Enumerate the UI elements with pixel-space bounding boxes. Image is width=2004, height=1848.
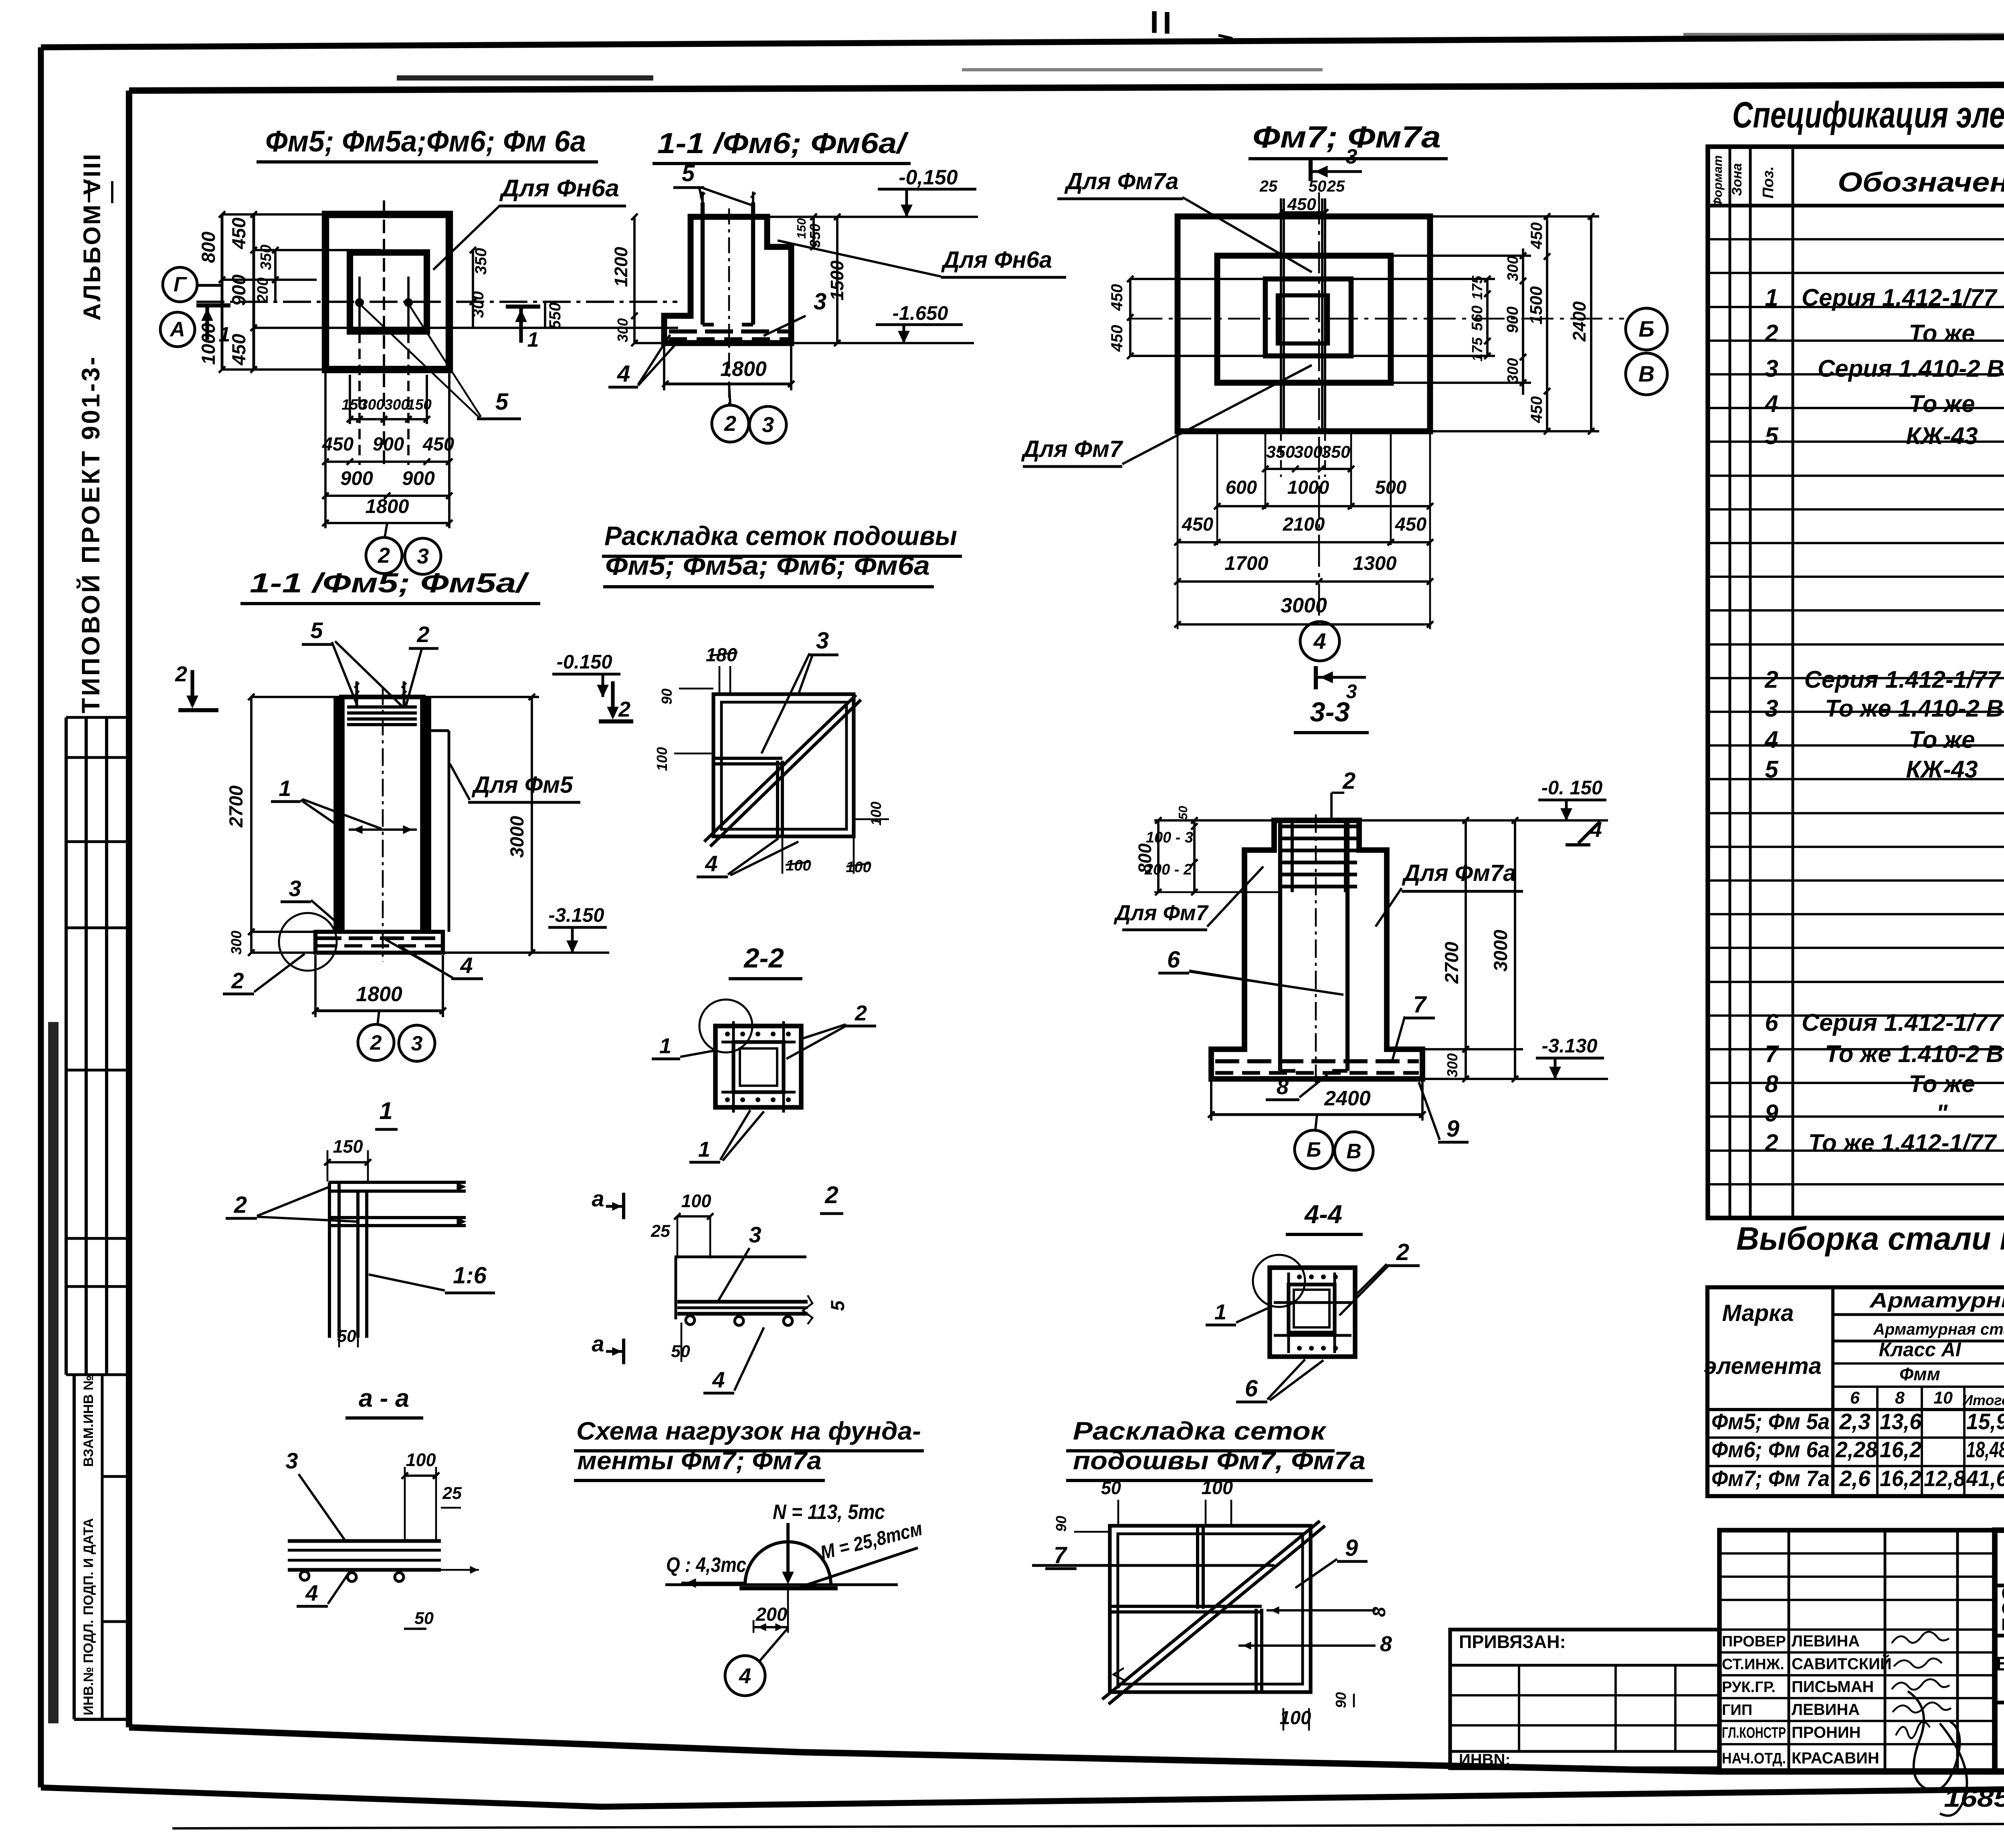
svg-text:2: 2 <box>175 662 187 686</box>
svg-text:25: 25 <box>1327 178 1345 195</box>
svg-text:100: 100 <box>1280 1707 1311 1728</box>
svg-text:ИНВN:: ИНВN: <box>1459 1751 1511 1769</box>
svg-text:ЛЕВИНА: ЛЕВИНА <box>1792 1701 1860 1719</box>
svg-text:Фм5; Фм 5а: Фм5; Фм 5а <box>1711 1409 1830 1434</box>
svg-text:2: 2 <box>370 1031 382 1054</box>
svg-text:То же: То же <box>1909 726 1975 753</box>
svg-text:Фмм: Фмм <box>1899 1364 1940 1384</box>
svg-text:100: 100 <box>654 747 670 771</box>
svg-text:300: 300 <box>1505 358 1521 383</box>
svg-text:Б: Б <box>1307 1138 1321 1161</box>
svg-text:Для Фм5: Для Фм5 <box>471 772 573 798</box>
svg-text:ПРИВЯЗАН:: ПРИВЯЗАН: <box>1459 1632 1566 1652</box>
svg-text:300: 300 <box>384 396 409 413</box>
svg-text:1:6: 1:6 <box>453 1262 487 1289</box>
svg-text:13,6: 13,6 <box>1880 1409 1922 1434</box>
svg-text:450: 450 <box>1182 513 1213 535</box>
svg-text:5: 5 <box>827 1300 848 1311</box>
svg-text:1500: 1500 <box>827 261 847 301</box>
svg-text:В: В <box>1346 1140 1362 1163</box>
svg-text:Обозначение: Обозначение <box>1838 167 2004 198</box>
svg-text:550: 550 <box>546 303 564 329</box>
svg-text:300: 300 <box>1444 1053 1461 1077</box>
svg-text:Серия 1.412-1/77 Вып.3: Серия 1.412-1/77 Вып.3 <box>1804 666 2004 693</box>
svg-text:5: 5 <box>310 618 323 643</box>
svg-text:Q : 4,3тс: Q : 4,3тс <box>666 1553 746 1577</box>
svg-text:Спецификация элементов монолит: Спецификация элементов монолитной констр… <box>1732 95 2004 135</box>
svg-text:": " <box>1936 1100 1948 1127</box>
svg-text:1800: 1800 <box>356 983 402 1006</box>
svg-text:Для Фм7а: Для Фм7а <box>1402 860 1516 886</box>
svg-text:Серия 1.412-1/77 Вып. 3: Серия 1.412-1/77 Вып. 3 <box>1802 284 2004 311</box>
svg-text:300: 300 <box>228 931 244 955</box>
svg-text:7: 7 <box>1413 992 1427 1018</box>
svg-text:2-2: 2-2 <box>743 943 784 973</box>
svg-text:3-3: 3-3 <box>1310 697 1350 727</box>
svg-text:100: 100 <box>1202 1477 1233 1498</box>
svg-text:Для Фн6а: Для Фн6а <box>941 247 1052 273</box>
svg-text:2: 2 <box>1764 1129 1778 1156</box>
svg-text:ПРОИЗВОДИТЕЛЬНОСТЬЮ 20ТЫС.М³/С: ПРОИЗВОДИТЕЛЬНОСТЬЮ 20ТЫС.М³/СУТ С КОНТА… <box>2002 1615 2004 1633</box>
svg-text:4: 4 <box>739 1664 751 1688</box>
svg-text:Итого: Итого <box>1962 1392 2004 1408</box>
svg-text:450: 450 <box>1108 284 1126 311</box>
svg-text:300: 300 <box>1505 256 1521 281</box>
svg-text:90: 90 <box>659 689 675 705</box>
svg-text:менты Фм7; Фм7а: менты Фм7; Фм7а <box>577 1447 822 1475</box>
svg-text:А: А <box>169 318 185 341</box>
svg-text:100: 100 <box>406 1450 436 1470</box>
svg-text:2: 2 <box>416 622 429 647</box>
svg-text:2: 2 <box>378 543 390 568</box>
svg-text:3: 3 <box>1765 695 1778 722</box>
svg-text:Арматурные изделия: Арматурные изделия <box>1869 1289 2004 1312</box>
svg-text:ИНВ.№ ПОДЛ.: ИНВ.№ ПОДЛ. <box>81 1620 96 1715</box>
svg-text:5: 5 <box>495 389 509 415</box>
svg-text:900: 900 <box>340 468 373 489</box>
svg-text:1: 1 <box>698 1137 710 1161</box>
svg-text:150: 150 <box>407 396 432 413</box>
svg-text:3: 3 <box>1346 145 1358 168</box>
svg-text:1: 1 <box>219 323 230 346</box>
svg-text:ГИП: ГИП <box>1722 1702 1752 1719</box>
svg-text:4: 4 <box>460 953 473 978</box>
svg-text:ЛЕВИНА: ЛЕВИНА <box>1792 1632 1860 1650</box>
svg-text:ТИПОВОЙ ПРОЕКТ 901-3-: ТИПОВОЙ ПРОЕКТ 901-3- <box>77 355 105 713</box>
svg-text:350: 350 <box>1266 442 1295 462</box>
svg-text:а: а <box>592 1186 604 1211</box>
svg-text:1300: 1300 <box>1353 553 1396 574</box>
svg-text:-0.150: -0.150 <box>557 651 612 673</box>
svg-text:ПРОНИН: ПРОНИН <box>1792 1724 1861 1741</box>
svg-text:450: 450 <box>1108 325 1126 352</box>
svg-text:БЛОК КОНТАКТНОЙ КАМЕРЫ: БЛОК КОНТАКТНОЙ КАМЕРЫ <box>1996 1653 2004 1675</box>
svg-text:То же: То же <box>1909 1070 1975 1097</box>
svg-text:ПИСЬМАН: ПИСЬМАН <box>1792 1678 1874 1696</box>
svg-text:560: 560 <box>1469 305 1486 331</box>
svg-text:5: 5 <box>1765 756 1779 783</box>
svg-text:450: 450 <box>1528 396 1545 424</box>
svg-text:2700: 2700 <box>225 786 246 828</box>
svg-text:НАЧ.ОТД.: НАЧ.ОТД. <box>1722 1750 1786 1767</box>
svg-text:8: 8 <box>1369 1607 1389 1617</box>
svg-text:1-1 /Фм5; Фм5а/: 1-1 /Фм5; Фм5а/ <box>250 568 530 598</box>
svg-text:4: 4 <box>712 1367 725 1392</box>
svg-text:1: 1 <box>379 1097 392 1124</box>
svg-text:4: 4 <box>1764 726 1778 753</box>
svg-text:элемента: элемента <box>1704 1353 1822 1379</box>
svg-text:Арматурная сталь ГОСТ 5781-75: Арматурная сталь ГОСТ 5781-75 <box>1873 1321 2004 1338</box>
svg-text:2: 2 <box>1342 768 1356 794</box>
svg-text:800: 800 <box>198 232 219 263</box>
svg-text:450: 450 <box>1287 195 1316 214</box>
svg-text:2700: 2700 <box>1441 942 1462 984</box>
svg-text:100: 100 <box>681 1191 711 1211</box>
svg-text:Зона: Зона <box>1729 163 1745 196</box>
svg-text:АЛЬБОМ VIII: АЛЬБОМ VIII <box>79 152 105 321</box>
svg-text:а - а: а - а <box>359 1384 409 1412</box>
svg-text:450: 450 <box>228 334 249 366</box>
svg-text:4-4: 4-4 <box>1304 1200 1342 1229</box>
svg-text:Для Фн6а: Для Фн6а <box>499 175 619 202</box>
svg-text:16856-01 2.2.: 16856-01 2.2. <box>1944 1784 2004 1812</box>
svg-text:2: 2 <box>1396 1239 1409 1265</box>
svg-text:Для Фм7: Для Фм7 <box>1021 436 1123 462</box>
svg-text:3: 3 <box>816 628 829 654</box>
svg-text:300: 300 <box>360 396 384 413</box>
svg-text:3: 3 <box>285 1448 298 1473</box>
svg-text:450: 450 <box>422 433 454 454</box>
svg-text:То же 1.412-1/77 Вып.3: То же 1.412-1/77 Вып.3 <box>1808 1129 2004 1156</box>
svg-text:300: 300 <box>469 291 487 318</box>
svg-text:8: 8 <box>1380 1632 1392 1656</box>
svg-text:1800: 1800 <box>720 357 767 381</box>
svg-text:-3.130: -3.130 <box>1542 1035 1598 1057</box>
svg-text:Серия 1.410-2 Вып. 1: Серия 1.410-2 Вып. 1 <box>1818 355 2004 382</box>
svg-text:150: 150 <box>794 218 808 239</box>
svg-text:1: 1 <box>1765 284 1778 311</box>
svg-text:6: 6 <box>1167 947 1180 973</box>
svg-text:450: 450 <box>1528 222 1545 250</box>
svg-text:200: 200 <box>756 1604 787 1625</box>
svg-text:12,8: 12,8 <box>1924 1466 1966 1491</box>
svg-text:Класс АI: Класс АI <box>1879 1339 1962 1361</box>
svg-text:25: 25 <box>1259 178 1278 195</box>
svg-text:2: 2 <box>1764 666 1778 693</box>
svg-text:3000: 3000 <box>1490 930 1511 972</box>
svg-text:10: 10 <box>1933 1388 1953 1408</box>
svg-text:350: 350 <box>1321 442 1350 462</box>
svg-text:2: 2 <box>618 697 630 721</box>
svg-text:90: 90 <box>1053 1516 1069 1532</box>
svg-text:1000: 1000 <box>1287 477 1329 498</box>
svg-text:-3.150: -3.150 <box>549 905 604 926</box>
svg-text:9: 9 <box>1765 1100 1778 1127</box>
svg-text:ПРОВЕР: ПРОВЕР <box>1722 1633 1786 1650</box>
svg-text:4: 4 <box>705 851 717 876</box>
svg-text:-1.650: -1.650 <box>893 303 948 324</box>
svg-text:2: 2 <box>231 968 244 993</box>
svg-text:350: 350 <box>258 244 275 270</box>
svg-text:3000: 3000 <box>506 816 527 858</box>
svg-text:2: 2 <box>234 1192 247 1218</box>
svg-text:1700: 1700 <box>1224 553 1268 574</box>
svg-text:Раскладка сеток подошвы: Раскладка сеток подошвы <box>604 521 957 551</box>
svg-text:То же 1.410-2 Вып.1: То же 1.410-2 Вып.1 <box>1825 695 2004 722</box>
svg-text:25: 25 <box>442 1484 462 1503</box>
svg-text:СТ.ИНЖ.: СТ.ИНЖ. <box>1722 1656 1784 1673</box>
svg-text:3: 3 <box>1765 355 1778 382</box>
svg-text:КЖ-43: КЖ-43 <box>1906 756 1978 783</box>
svg-text:7: 7 <box>1765 1040 1779 1067</box>
svg-text:9: 9 <box>1345 1535 1358 1561</box>
svg-text:450: 450 <box>322 433 354 454</box>
svg-text:300: 300 <box>614 318 631 342</box>
svg-text:Серия 1.412-1/77 Вып.3: Серия 1.412-1/77 Вып.3 <box>1802 1009 2004 1036</box>
svg-text:КРАСАВИН: КРАСАВИН <box>1792 1749 1879 1767</box>
svg-text:450: 450 <box>1395 513 1426 535</box>
svg-text:-0,150: -0,150 <box>899 166 958 189</box>
svg-text:2,3: 2,3 <box>1839 1409 1871 1434</box>
svg-text:1: 1 <box>527 328 539 351</box>
svg-text:2100: 2100 <box>1283 513 1325 535</box>
svg-text:Схема нагрузок на фунда-: Схема нагрузок на фунда- <box>576 1417 921 1445</box>
svg-text:КЖ-43: КЖ-43 <box>1906 422 1978 449</box>
svg-text:4: 4 <box>617 361 630 387</box>
svg-text:3: 3 <box>762 413 774 437</box>
svg-text:16,2: 16,2 <box>1880 1437 1921 1462</box>
svg-text:350: 350 <box>807 224 823 248</box>
svg-text:Раскладка сеток: Раскладка сеток <box>1073 1417 1327 1445</box>
svg-text:16,2: 16,2 <box>1880 1466 1921 1491</box>
svg-text:2,28: 2,28 <box>1835 1437 1878 1462</box>
svg-text:Г: Г <box>174 273 187 296</box>
svg-text:-0. 150: -0. 150 <box>1541 777 1603 799</box>
svg-text:4: 4 <box>305 1580 318 1606</box>
svg-text:6: 6 <box>1765 1009 1778 1036</box>
svg-text:1-1 /Фм6; Фм6а/: 1-1 /Фм6; Фм6а/ <box>657 127 909 160</box>
svg-text:2: 2 <box>1764 320 1778 347</box>
svg-text:18,48: 18,48 <box>1966 1437 2004 1462</box>
svg-text:2400: 2400 <box>1569 301 1590 342</box>
svg-text:Для Фм7: Для Фм7 <box>1113 901 1209 925</box>
svg-text:N = 113, 5тс: N = 113, 5тс <box>773 1501 885 1524</box>
svg-text:4: 4 <box>1313 628 1326 654</box>
svg-text:подошвы Фм7, Фм7а: подошвы Фм7, Фм7а <box>1073 1447 1366 1475</box>
svg-text:1200: 1200 <box>611 247 631 287</box>
svg-text:100: 100 <box>868 802 884 826</box>
svg-text:8: 8 <box>1277 1075 1289 1099</box>
svg-text:а: а <box>592 1331 604 1356</box>
svg-text:100: 100 <box>846 859 871 876</box>
svg-text:100: 100 <box>786 857 811 874</box>
svg-text:1800: 1800 <box>365 496 409 517</box>
svg-text:175: 175 <box>1469 337 1485 362</box>
svg-text:41,6: 41,6 <box>1966 1466 2004 1491</box>
svg-text:1: 1 <box>279 776 291 801</box>
svg-text:900: 900 <box>1504 307 1521 333</box>
svg-text:Фм6; Фм 6а: Фм6; Фм 6а <box>1711 1437 1830 1462</box>
svg-text:150: 150 <box>333 1136 363 1157</box>
svg-text:200: 200 <box>255 277 271 303</box>
svg-text:50: 50 <box>1101 1478 1121 1498</box>
svg-text:2: 2 <box>855 1001 867 1025</box>
svg-text:РУК.ГР.: РУК.ГР. <box>1722 1679 1776 1696</box>
svg-text:То же: То же <box>1909 390 1975 417</box>
svg-text:900: 900 <box>402 468 435 489</box>
svg-text:900: 900 <box>373 433 404 454</box>
svg-text:ГЛ.КОНСТР: ГЛ.КОНСТР <box>1722 1725 1786 1741</box>
svg-text:3: 3 <box>411 1032 423 1055</box>
svg-text:25: 25 <box>650 1222 671 1241</box>
svg-text:САВИТСКИЙ: САВИТСКИЙ <box>1792 1654 1892 1673</box>
svg-text:6: 6 <box>1245 1375 1258 1402</box>
svg-text:3000: 3000 <box>1281 594 1327 617</box>
svg-text:Фм5; Фм5а; Фм6; Фм6а: Фм5; Фм5а; Фм6; Фм6а <box>605 551 930 581</box>
svg-text:Выборка стали на один элемент,: Выборка стали на один элемент, кг <box>1736 1221 2004 1257</box>
svg-text:8: 8 <box>1895 1388 1905 1408</box>
svg-text:Фм7; Фм 7а: Фм7; Фм 7а <box>1711 1466 1830 1491</box>
svg-text:2,6: 2,6 <box>1839 1466 1871 1491</box>
svg-text:350: 350 <box>472 248 490 275</box>
svg-text:15,9: 15,9 <box>1966 1409 2004 1434</box>
svg-text:3: 3 <box>289 876 301 901</box>
svg-text:100 - 3: 100 - 3 <box>1146 829 1193 846</box>
svg-text:1500: 1500 <box>1527 286 1546 325</box>
svg-text:1: 1 <box>1214 1300 1226 1324</box>
svg-text:Поз.: Поз. <box>1760 166 1777 199</box>
svg-text:Марка: Марка <box>1722 1300 1794 1326</box>
svg-text:Для Фм7а: Для Фм7а <box>1064 168 1179 194</box>
svg-text:2: 2 <box>824 1182 838 1208</box>
svg-text:3: 3 <box>814 289 826 315</box>
svg-text:9: 9 <box>1446 1116 1459 1142</box>
svg-text:2: 2 <box>724 412 736 436</box>
svg-text:1: 1 <box>659 1034 671 1058</box>
svg-text:Формат: Формат <box>1711 155 1725 207</box>
svg-text:450: 450 <box>228 218 249 249</box>
svg-text:50: 50 <box>414 1609 434 1628</box>
svg-text:5: 5 <box>682 160 695 186</box>
svg-text:5: 5 <box>1765 422 1779 449</box>
svg-text:8: 8 <box>1765 1070 1778 1097</box>
svg-text:3: 3 <box>417 544 429 568</box>
svg-text:4: 4 <box>1764 390 1778 417</box>
svg-text:С СОДЕРЖАНИЕМ ВЗВЕШЕННЫХ ВЕЩЕС: С СОДЕРЖАНИЕМ ВЗВЕШЕННЫХ ВЕЩЕСТВ ДО 2500… <box>2002 1599 2004 1618</box>
svg-text:90: 90 <box>1333 1692 1349 1708</box>
svg-text:200 - 2: 200 - 2 <box>1144 861 1192 878</box>
svg-text:В: В <box>1638 361 1655 386</box>
svg-text:600: 600 <box>1226 477 1257 498</box>
svg-text:То же: То же <box>1909 320 1975 347</box>
svg-text:6: 6 <box>1850 1388 1860 1408</box>
svg-text:3: 3 <box>749 1222 761 1247</box>
svg-text:ПОДП. И ДАТА: ПОДП. И ДАТА <box>81 1518 96 1615</box>
svg-text:900: 900 <box>228 275 249 306</box>
svg-text:Фм5; Фм5а;Фм6; Фм 6а: Фм5; Фм5а;Фм6; Фм 6а <box>265 125 586 158</box>
svg-text:Б: Б <box>1638 316 1655 341</box>
svg-text:300: 300 <box>1294 442 1323 462</box>
svg-text:То же 1.410-2 Вып.1: То же 1.410-2 Вып.1 <box>1825 1040 2004 1067</box>
svg-text:50: 50 <box>1176 806 1190 820</box>
svg-text:2400: 2400 <box>1324 1087 1371 1110</box>
svg-text:ВЗАМ.ИНВ №: ВЗАМ.ИНВ № <box>81 1375 96 1467</box>
